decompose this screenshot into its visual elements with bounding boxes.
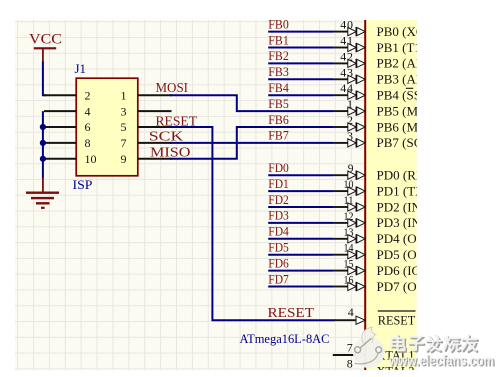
svg-text:9: 9 xyxy=(121,152,127,166)
watermark text 电子发烧友 xyxy=(392,335,478,352)
svg-text:PB5 (MOSI): PB5 (MOSI) xyxy=(377,103,417,118)
IC pin 7 XTAL1 xyxy=(333,341,415,363)
svg-text:PB2 (AIN0/INT2): PB2 (AIN0/INT2) xyxy=(377,56,417,71)
svg-text:44: 44 xyxy=(340,81,354,95)
IC pin 43 PB3 xyxy=(333,65,469,86)
svg-text:40: 40 xyxy=(340,20,354,32)
wire net FD1 xyxy=(268,190,333,192)
IC pin 1 PB5 xyxy=(333,97,443,118)
IC pin 41 PB1 xyxy=(333,34,425,55)
connector J1 body xyxy=(76,78,138,176)
svg-text:VCC: VCC xyxy=(29,32,62,48)
wire net FD2 xyxy=(268,206,333,208)
wire net FD7 xyxy=(268,286,333,288)
svg-text:10: 10 xyxy=(344,179,354,191)
IC pin 2 PB6 xyxy=(333,113,443,134)
wire net FD5 xyxy=(268,254,333,256)
watermark text www.elecfans.com xyxy=(388,353,495,370)
svg-text:FD3: FD3 xyxy=(268,208,289,223)
svg-text:43: 43 xyxy=(340,65,354,79)
junction dot at y=127 xyxy=(40,124,46,130)
wire net FB0 xyxy=(268,31,333,33)
J1 pin 6 (left) xyxy=(44,120,91,134)
svg-text:PD0 (RXD): PD0 (RXD) xyxy=(377,168,417,183)
svg-text:15: 15 xyxy=(344,259,354,271)
svg-text:XTAL1: XTAL1 xyxy=(377,348,415,362)
J1 pin 5 (right) xyxy=(121,120,172,134)
IC pin 4 RESET xyxy=(334,305,416,327)
svg-text:42: 42 xyxy=(340,49,354,63)
wire net FB4 xyxy=(268,94,333,96)
IC pin 3 PB7 xyxy=(333,129,436,150)
svg-text:11: 11 xyxy=(344,195,354,207)
svg-text:1: 1 xyxy=(121,88,127,102)
junction dot at y=159 xyxy=(40,156,46,162)
wire net FD6 xyxy=(268,270,333,272)
IC pin 14 PD5 xyxy=(333,243,445,262)
wire RESET: J1 pin5 to IC pin4 xyxy=(170,127,335,320)
svg-text:PD2 (INT0): PD2 (INT0) xyxy=(377,199,417,214)
svg-text:3: 3 xyxy=(121,104,127,118)
svg-text:MOSI: MOSI xyxy=(156,81,189,96)
svg-text:PB7 (SCK): PB7 (SCK) xyxy=(377,135,417,150)
J1 pin 4 (left) xyxy=(44,104,91,118)
svg-text:PD4 (OC1B): PD4 (OC1B) xyxy=(377,231,417,246)
wire VCC to J1 pin 2 xyxy=(43,62,46,96)
svg-text:PD7 (OC2): PD7 (OC2) xyxy=(377,279,417,294)
J1 pin 8 (left) xyxy=(44,136,91,150)
svg-text:FB5: FB5 xyxy=(268,96,289,111)
IC pin 44 PB4 xyxy=(333,81,425,102)
J1 pin 7 (right) xyxy=(121,136,172,150)
svg-text:PD5 (OC1A): PD5 (OC1A) xyxy=(377,247,417,262)
svg-text:PD1 (TXD): PD1 (TXD) xyxy=(377,183,417,198)
IC pin 42 PB2 xyxy=(333,49,472,70)
J1 pin 10 (left) xyxy=(44,152,97,166)
svg-text:FD6: FD6 xyxy=(268,255,289,270)
svg-text:FD4: FD4 xyxy=(268,224,289,239)
wire ground bus (J1 pins 4,6,8,10 to GND) xyxy=(42,111,44,179)
J1 pin 9 (right) xyxy=(121,152,172,166)
svg-text:FD0: FD0 xyxy=(268,160,289,175)
watermark logo (elecfans leaf) xyxy=(353,327,385,368)
svg-text:10: 10 xyxy=(85,152,97,166)
svg-text:FD2: FD2 xyxy=(268,192,289,207)
svg-text:XTAL2: XTAL2 xyxy=(377,364,415,369)
svg-text:FB3: FB3 xyxy=(268,64,289,79)
svg-text:PB6 (MISO): PB6 (MISO) xyxy=(377,119,417,134)
wire net FD3 xyxy=(268,222,333,224)
svg-text:FB6: FB6 xyxy=(268,112,289,127)
svg-text:FB7: FB7 xyxy=(268,128,289,143)
wire net FD4 xyxy=(268,238,333,240)
J1 pin 2 (left) xyxy=(44,88,91,102)
svg-text:RESET: RESET xyxy=(268,306,315,321)
svg-text:3: 3 xyxy=(347,129,354,143)
svg-text:ISP: ISP xyxy=(73,177,93,192)
svg-text:7: 7 xyxy=(347,341,353,355)
svg-text:PD3 (INT1): PD3 (INT1) xyxy=(377,215,417,230)
wire net FB3 xyxy=(268,78,333,80)
svg-text:41: 41 xyxy=(340,34,354,48)
svg-text:5: 5 xyxy=(121,120,127,134)
svg-text:PD6 (ICP): PD6 (ICP) xyxy=(377,263,417,278)
svg-text:PB0 (XCK/T0): PB0 (XCK/T0) xyxy=(377,24,417,39)
svg-text:2: 2 xyxy=(85,88,91,102)
IC pin 16 PD7 xyxy=(333,275,436,294)
J1 pin 1 (right) xyxy=(121,88,172,102)
IC pin 11 PD2 xyxy=(333,195,440,214)
wire net FD0 xyxy=(268,174,333,176)
svg-text:6: 6 xyxy=(85,120,91,134)
IC U1 ATmega16 body xyxy=(365,20,416,370)
IC pin 13 PD4 xyxy=(333,227,445,246)
svg-text:7: 7 xyxy=(121,136,127,150)
svg-text:FB0: FB0 xyxy=(268,20,289,31)
junction dot at y=143 xyxy=(40,140,46,146)
svg-text:FB4: FB4 xyxy=(268,80,289,95)
svg-text:12: 12 xyxy=(344,211,354,223)
IC pin 9 PD0 xyxy=(333,163,439,182)
svg-text:FB1: FB1 xyxy=(268,32,289,47)
svg-text:J1: J1 xyxy=(75,61,87,76)
svg-text:4: 4 xyxy=(85,104,91,118)
svg-text:1: 1 xyxy=(347,97,354,111)
IC pin 10 PD1 xyxy=(333,179,438,198)
wire net FB2 xyxy=(268,62,333,64)
IC pin 12 PD3 xyxy=(333,211,440,230)
svg-text:9: 9 xyxy=(348,163,354,175)
svg-text:FD1: FD1 xyxy=(268,176,289,191)
wire net FB1 xyxy=(268,47,333,49)
svg-text:RESET: RESET xyxy=(378,313,416,328)
IC pin 40 PB0 xyxy=(333,18,456,39)
svg-text:FD5: FD5 xyxy=(268,240,289,255)
power symbol VCC xyxy=(29,32,62,63)
svg-text:FB2: FB2 xyxy=(268,48,289,63)
svg-text:ATmega16L-8AC: ATmega16L-8AC xyxy=(240,332,330,346)
svg-text:16: 16 xyxy=(344,275,354,287)
svg-text:PB1 (T1): PB1 (T1) xyxy=(377,40,417,55)
wire MOSI: J1 pin1 to PB5 row xyxy=(170,95,333,111)
svg-text:FD7: FD7 xyxy=(268,271,289,286)
wire MISO: J1 pin9 to PB6 row xyxy=(170,127,333,159)
IC pin 8 XTAL2 xyxy=(347,357,415,377)
svg-text:14: 14 xyxy=(344,243,354,255)
svg-text:13: 13 xyxy=(344,227,354,239)
svg-text:8: 8 xyxy=(85,136,91,150)
wire SCK: J1 pin7 to PB7 row xyxy=(170,142,333,144)
svg-text:8: 8 xyxy=(347,357,353,370)
IC pin 15 PD6 xyxy=(333,259,432,278)
J1 pin 3 (right) xyxy=(121,104,172,118)
svg-text:PB4 (SS): PB4 (SS) xyxy=(377,88,417,103)
ground symbol xyxy=(26,178,59,209)
svg-text:2: 2 xyxy=(347,113,354,127)
svg-text:PB3 (AIN1/OC0): PB3 (AIN1/OC0) xyxy=(377,72,417,87)
svg-text:4: 4 xyxy=(348,305,354,319)
